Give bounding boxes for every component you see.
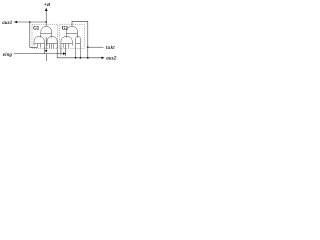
svg-text:G1: G1 [33,26,39,31]
svg-text:takt: takt [106,46,115,51]
svg-text:G2: G2 [62,26,68,31]
svg-text:aus1: aus1 [2,21,12,26]
svg-text:aus2: aus2 [106,57,117,62]
svg-text:eing: eing [3,53,13,58]
svg-text:+B: +B [44,3,50,8]
